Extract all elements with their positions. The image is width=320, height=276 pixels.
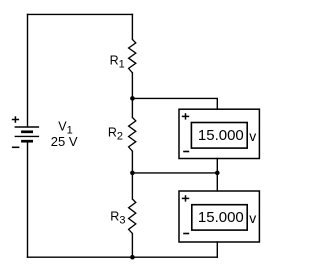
voltmeter U1 display box bbox=[191, 123, 247, 149]
wire R2-R3 link bbox=[131, 151, 133, 199]
wire left (battery bottom lead) bbox=[27, 142, 29, 257]
wire top bbox=[28, 13, 133, 15]
svg-text:v: v bbox=[249, 210, 256, 226]
node B junction dot (main) bbox=[130, 171, 135, 176]
svg-text:v: v bbox=[249, 128, 256, 144]
wire bottom bbox=[28, 256, 218, 258]
wire main vertical R1 top lead bbox=[131, 14, 133, 39]
wire node B horizontal bbox=[132, 172, 217, 174]
node C junction dot bbox=[130, 255, 135, 260]
voltmeter U1 plus sign bbox=[182, 113, 189, 119]
wire node A to meter U1 plus bbox=[132, 98, 217, 109]
battery V1 plates bbox=[15, 127, 39, 141]
voltmeter U1 outer box bbox=[179, 109, 259, 158]
node B junction dot (meter branch) bbox=[215, 171, 220, 176]
wire meter U2 minus to bottom bbox=[216, 242, 218, 257]
voltmeter U2 outer box bbox=[179, 191, 259, 242]
wire left (battery top lead) bbox=[27, 14, 29, 127]
voltmeter U2 display box bbox=[192, 205, 247, 230]
svg-text:25 V: 25 V bbox=[51, 134, 78, 149]
wire R1-R2 link bbox=[131, 73, 133, 118]
node A junction dot bbox=[130, 96, 135, 101]
battery minus sign bbox=[12, 146, 20, 148]
voltmeter U2 plus sign bbox=[182, 195, 189, 201]
svg-text:15.000: 15.000 bbox=[198, 127, 244, 144]
voltmeter U2 minus sign bbox=[183, 233, 189, 235]
resistor R1 bbox=[129, 39, 136, 72]
svg-text:15.000: 15.000 bbox=[198, 209, 244, 226]
wire meter U1 minus down to node B bbox=[216, 159, 218, 191]
voltmeter U1 minus sign bbox=[183, 151, 189, 153]
resistor R3 bbox=[129, 199, 136, 234]
battery plus sign bbox=[12, 116, 19, 123]
wire R3 bottom lead bbox=[131, 234, 133, 258]
resistor R2 bbox=[129, 118, 136, 152]
